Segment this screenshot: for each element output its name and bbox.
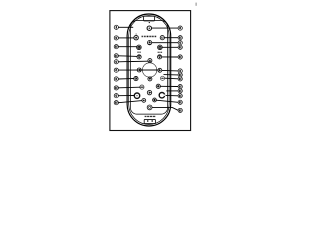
leader from nav right xyxy=(162,69,178,72)
channel 1 select button xyxy=(142,99,146,103)
channel 2 down button xyxy=(158,55,162,59)
channel 1 label xyxy=(137,52,139,53)
channel 2 amplitude knob xyxy=(159,93,164,98)
channel 1 amplitude knob xyxy=(134,93,139,98)
leader to faceplate xyxy=(118,26,133,28)
callout 10 xyxy=(178,36,182,40)
play pause button xyxy=(147,90,151,94)
callout 6 xyxy=(178,41,182,45)
leader to electrode jack xyxy=(118,37,134,39)
page number 1 xyxy=(196,3,197,6)
stim button xyxy=(147,105,152,110)
callout 20 xyxy=(178,89,182,93)
callout 21 xyxy=(178,94,182,98)
leader from parameter up xyxy=(152,42,178,44)
callout 8 xyxy=(114,68,118,72)
minus button xyxy=(140,85,144,89)
connector pin 1 xyxy=(147,120,148,121)
leader to ch1 down xyxy=(118,55,137,58)
connector pin 2 xyxy=(152,120,153,121)
battery door latch xyxy=(149,22,150,23)
callout 19 xyxy=(178,85,182,89)
lock button xyxy=(134,77,138,81)
leader to ch1 select xyxy=(118,101,142,103)
callout 2 xyxy=(114,60,118,64)
electrode jack left xyxy=(134,36,138,40)
callout 15 xyxy=(178,45,182,49)
device body outer outline xyxy=(127,14,171,126)
leader from select button xyxy=(160,85,178,87)
callout 17 xyxy=(178,73,182,77)
right leader wires xyxy=(152,28,178,110)
callout 7 xyxy=(178,69,182,73)
leader to ch1 intensity xyxy=(118,46,136,48)
channel 2 label xyxy=(158,52,159,53)
callout 16 xyxy=(178,55,182,59)
callout 4 xyxy=(114,94,118,98)
leader to minus button xyxy=(118,86,140,89)
left leader wires xyxy=(118,27,157,102)
leader to nav up xyxy=(118,60,147,63)
channel 2 select button xyxy=(153,98,157,102)
leader from power button xyxy=(152,27,178,29)
callout 1 xyxy=(114,25,118,29)
leader from nav ring xyxy=(164,74,179,76)
parameter up button xyxy=(148,41,152,45)
callout 11 xyxy=(114,45,118,49)
channel 1 down button xyxy=(137,55,141,59)
callout 3 xyxy=(114,77,118,81)
leader from info button xyxy=(165,77,179,80)
power button xyxy=(147,26,151,30)
select button xyxy=(156,84,160,88)
callout 12 xyxy=(114,101,118,105)
leader to nav left xyxy=(118,69,157,71)
callout 22 xyxy=(178,100,182,104)
nav up button xyxy=(148,59,152,63)
leader from ch2 intensity xyxy=(162,46,178,48)
model label xyxy=(145,116,147,117)
callout 5 xyxy=(178,26,182,30)
leader to lock button xyxy=(118,78,133,81)
callout 13 xyxy=(114,54,118,58)
left callout numbers xyxy=(114,25,118,105)
leader from ch2 down xyxy=(162,56,178,58)
callout 23 xyxy=(178,108,182,112)
leader from settings button xyxy=(164,37,178,39)
nav left button xyxy=(137,68,141,72)
leader from ch2 amplitude knob xyxy=(166,94,179,96)
leader from play pause xyxy=(166,90,178,92)
callout 18 xyxy=(178,77,182,81)
battery door xyxy=(144,16,155,21)
info button xyxy=(160,76,164,80)
callout 14 xyxy=(114,86,118,90)
navigation dial ring xyxy=(142,63,156,77)
figure frame xyxy=(110,11,191,131)
nav down button xyxy=(148,77,152,81)
device name label dots xyxy=(142,36,157,38)
settings button right xyxy=(160,36,164,40)
channel 1 intensity button xyxy=(137,45,142,50)
device body inner outline xyxy=(129,16,169,125)
charging connector xyxy=(144,119,155,123)
leader from ch2 select xyxy=(156,100,178,102)
faceplate panel xyxy=(130,21,167,115)
right callout numbers xyxy=(178,26,182,113)
leader from stim button xyxy=(152,108,178,111)
channel 2 intensity button xyxy=(158,45,163,50)
page background xyxy=(0,0,200,142)
leader to ch1 amplitude knob xyxy=(118,95,134,97)
nav right button xyxy=(158,68,162,72)
callout 9 xyxy=(114,36,118,40)
